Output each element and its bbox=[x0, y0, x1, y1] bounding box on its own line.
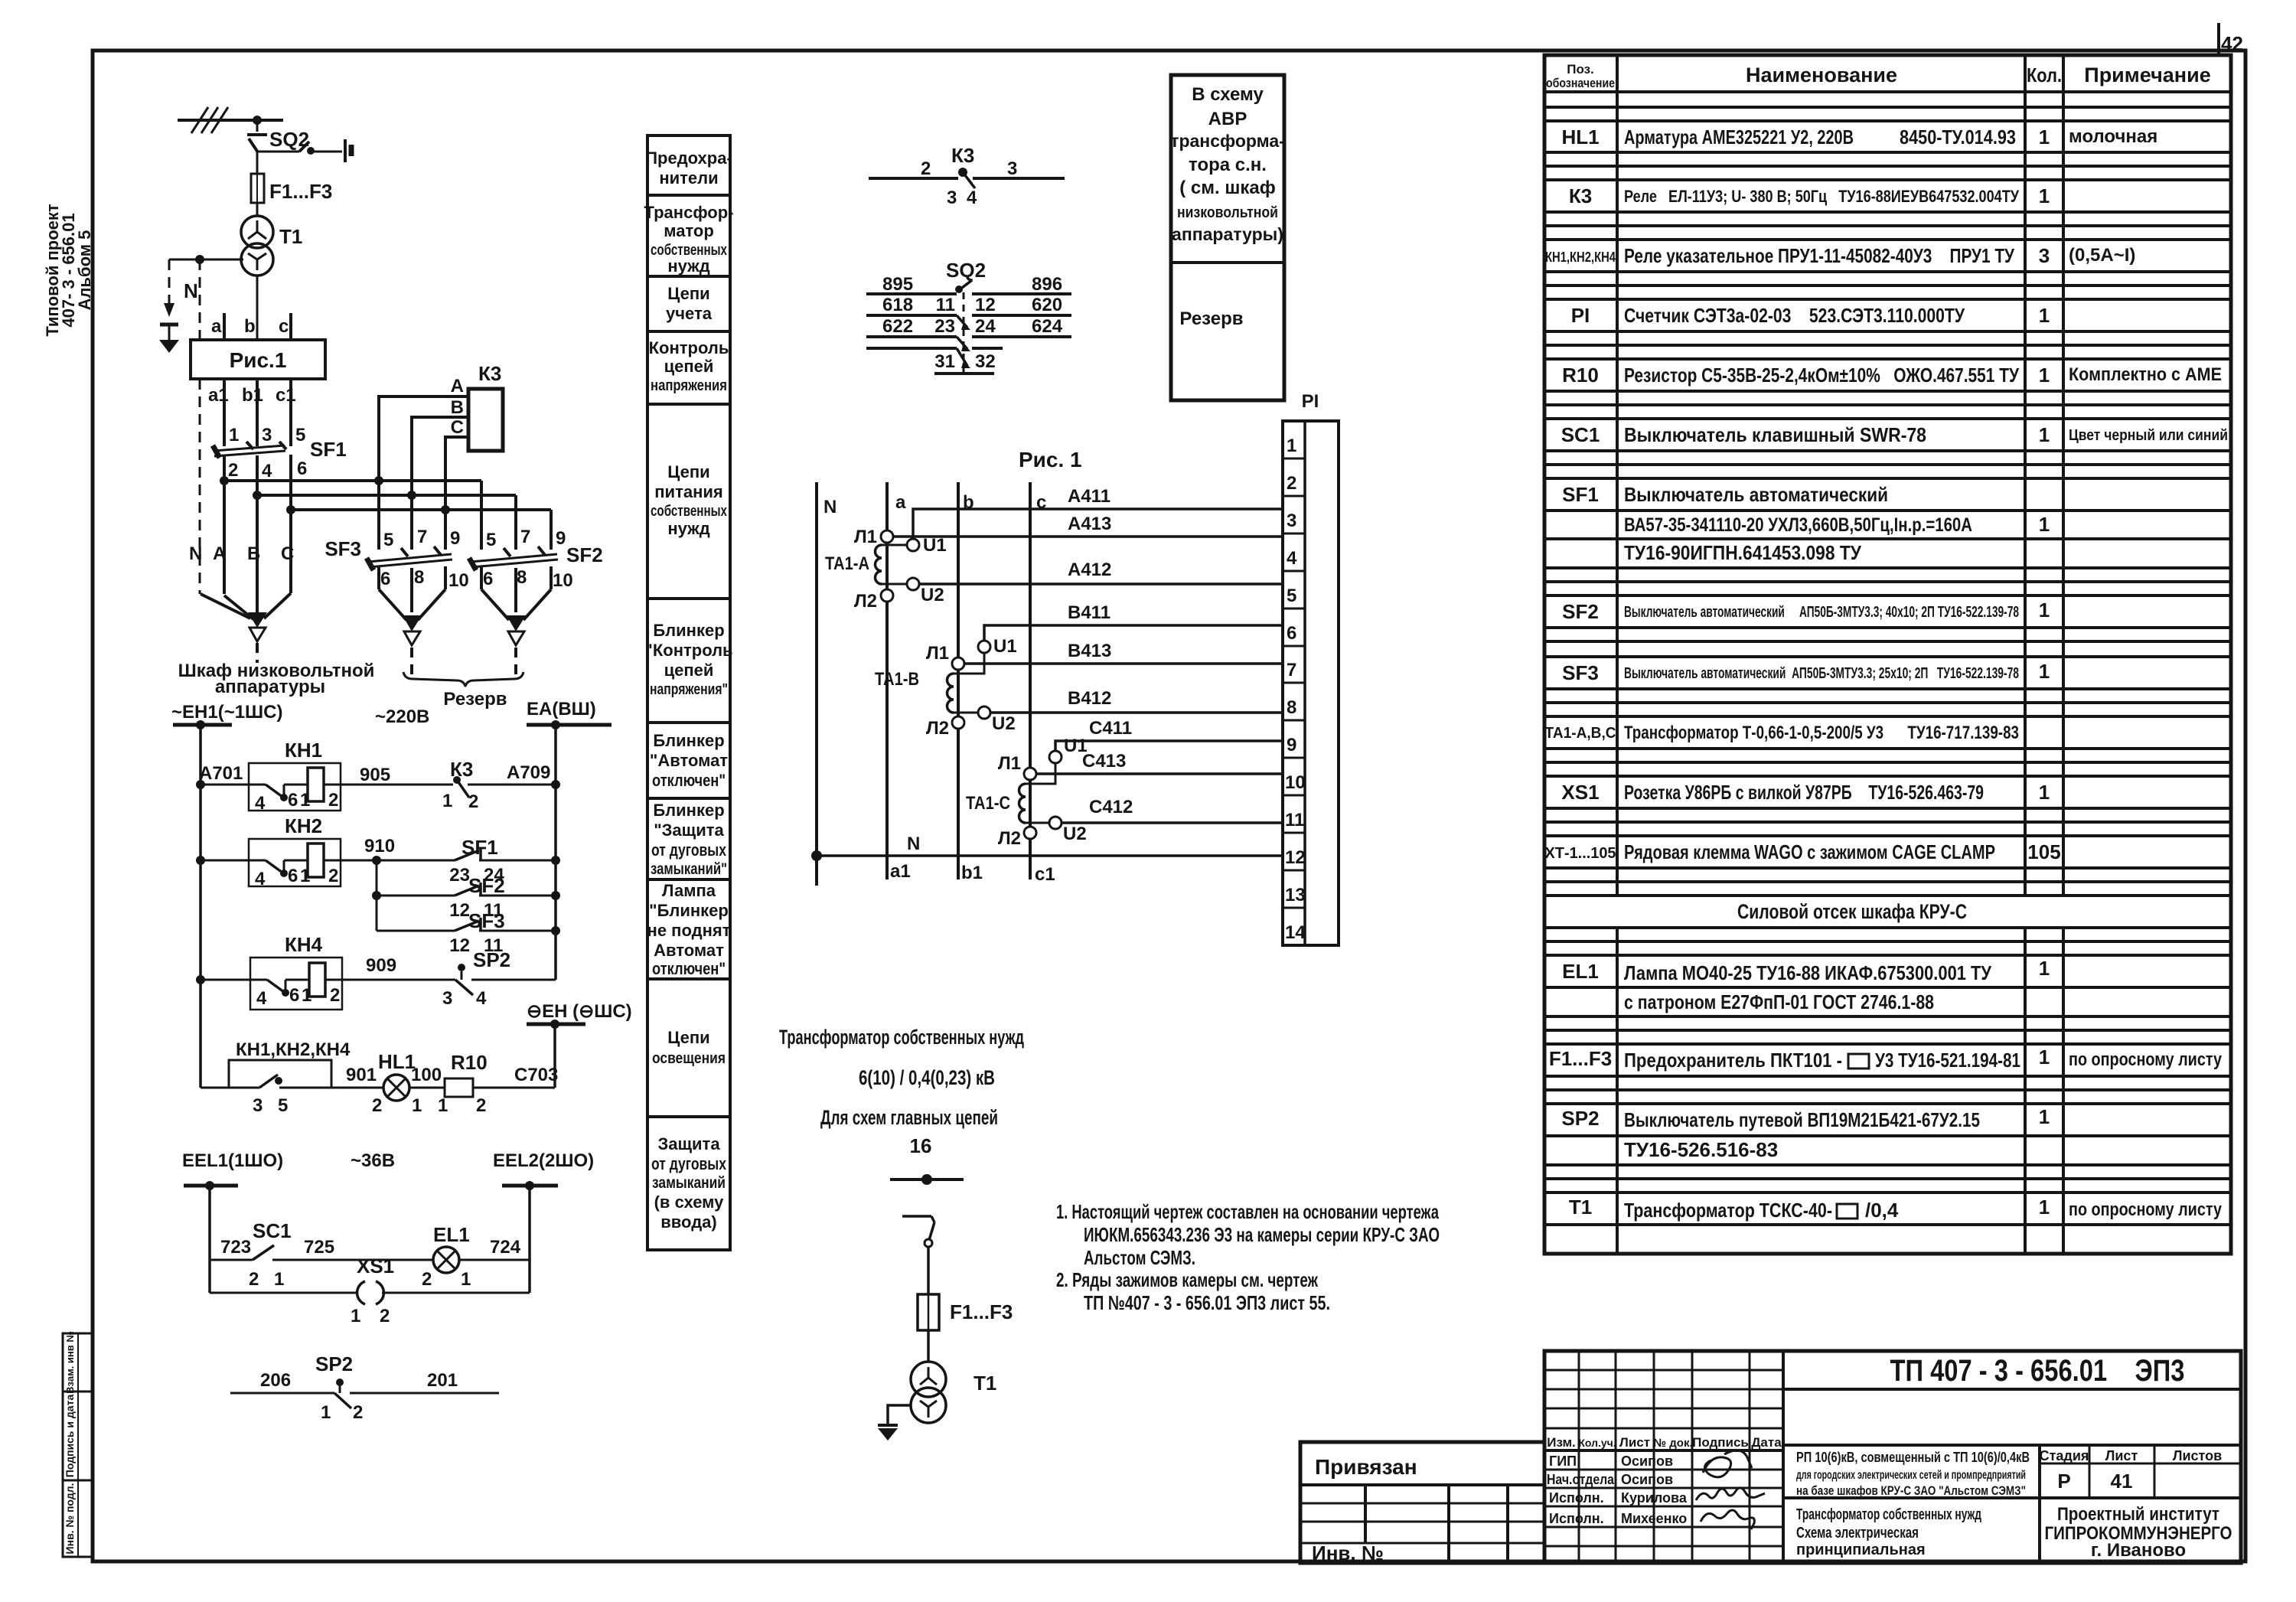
svg-text:3: 3 bbox=[442, 988, 452, 1009]
svg-text:1: 1 bbox=[1287, 436, 1296, 456]
svg-text:B: B bbox=[451, 397, 464, 418]
svg-text:К3: К3 bbox=[450, 758, 473, 781]
wire: left supply vertical bbox=[199, 725, 202, 1088]
svg-text:ТА1-В: ТА1-В bbox=[875, 669, 919, 690]
svg-text:7: 7 bbox=[1287, 660, 1296, 680]
svg-text:Реле ЕЛ-11У3; U- 380 В; 50: Реле ЕЛ-11У3; U- 380 В; 50Гц ТУ16-88ИЕУВ… bbox=[1624, 187, 2019, 206]
svg-text:2: 2 bbox=[476, 1095, 486, 1116]
svg-text:2: 2 bbox=[330, 985, 340, 1006]
sheet number 42 bbox=[2219, 23, 2243, 55]
svg-text:В схему: В схему bbox=[1192, 84, 1264, 105]
svg-text:U2: U2 bbox=[1063, 824, 1087, 844]
ground bus with hatching bbox=[178, 107, 283, 133]
svg-text:42: 42 bbox=[2221, 32, 2243, 55]
svg-text:Стадия: Стадия bbox=[2040, 1448, 2089, 1463]
svg-text:6(10) / 0,4(0,23) кВ: 6(10) / 0,4(0,23) кВ bbox=[859, 1066, 995, 1089]
ground of T1 bbox=[878, 1405, 912, 1440]
project description bbox=[1783, 1445, 2241, 1563]
svg-text:N: N bbox=[907, 834, 920, 854]
svg-text:2. Ряды зажимов камеры см. че: 2. Ряды зажимов камеры см. чертеж bbox=[1056, 1268, 1318, 1291]
svg-text:12: 12 bbox=[449, 900, 470, 921]
svg-text:напряжения": напряжения" bbox=[650, 681, 728, 698]
disconnect switch (main circuit) bbox=[902, 1216, 934, 1294]
node 16 bus bbox=[890, 1174, 964, 1185]
box Цепи учета bbox=[647, 276, 730, 331]
svg-text:Арматура АМЕ325221 У2, 220В: Арматура АМЕ325221 У2, 220В bbox=[1624, 126, 1854, 148]
svg-text:F1...F3: F1...F3 bbox=[1549, 1047, 1612, 1070]
svg-text:С413: С413 bbox=[1082, 751, 1126, 772]
svg-text:12: 12 bbox=[449, 935, 470, 956]
svg-text:2: 2 bbox=[380, 1306, 390, 1326]
svg-text:C: C bbox=[451, 417, 464, 438]
svg-text:Блинкер: Блинкер bbox=[653, 621, 724, 640]
wire 910 branch vertical bbox=[372, 860, 381, 931]
svg-text:К3: К3 bbox=[951, 144, 974, 167]
wire stub b (from T1) bbox=[244, 276, 257, 340]
svg-text:Силовой отсек шкафа КРУ-С: Силовой отсек шкафа КРУ-С bbox=[1737, 900, 1967, 923]
svg-text:Трансформатор Т-0,66-1-0,5-200: Трансформатор Т-0,66-1-0,5-200/5 У3 ТУ16… bbox=[1624, 723, 2019, 743]
table row SC1 bbox=[1561, 423, 2228, 446]
АВР reference box bbox=[1170, 75, 1285, 400]
svg-text:105: 105 bbox=[2027, 840, 2060, 863]
svg-text:Выключатель автоматический: Выключатель автоматический АП50Б-3МТУ3.3… bbox=[1624, 604, 2019, 621]
travel switch SP2 (bottom) bbox=[230, 1352, 499, 1423]
svg-text:4: 4 bbox=[256, 988, 267, 1009]
svg-text:от дуговых: от дуговых bbox=[651, 840, 727, 860]
svg-text:SC1: SC1 bbox=[1561, 423, 1600, 446]
svg-text:2: 2 bbox=[353, 1402, 363, 1423]
svg-text:Трансформатор собственных нужд: Трансформатор собственных нужд bbox=[1796, 1506, 1981, 1523]
svg-text:N: N bbox=[184, 279, 198, 302]
svg-text:по опросному листу: по опросному листу bbox=[2069, 1199, 2223, 1220]
svg-text:Наименование: Наименование bbox=[1746, 64, 1897, 86]
earthing arrow of neutral bbox=[159, 259, 179, 353]
svg-text:31: 31 bbox=[934, 351, 955, 372]
contact SF3 row bbox=[377, 909, 560, 956]
svg-text:10: 10 bbox=[448, 570, 469, 591]
svg-text:3: 3 bbox=[947, 188, 957, 208]
wire a1 below box bbox=[208, 379, 229, 446]
wire phase B down to funnel bbox=[256, 495, 259, 597]
svg-text:2: 2 bbox=[228, 460, 238, 481]
Рис.1 detail: line a bbox=[887, 482, 906, 879]
Рис.1 detail: line b bbox=[958, 482, 974, 879]
svg-text:909: 909 bbox=[366, 955, 396, 976]
box Трансформатор собственных нужд bbox=[644, 195, 734, 276]
svg-text:Исполн.: Исполн. bbox=[1549, 1490, 1604, 1506]
relay КН2 with contact bbox=[196, 814, 395, 889]
svg-text:принципиальная: принципиальная bbox=[1796, 1542, 1926, 1558]
svg-text:Листов: Листов bbox=[2173, 1448, 2222, 1463]
svg-text:7: 7 bbox=[520, 527, 530, 547]
left margin stamp text (rotated) bbox=[43, 204, 94, 337]
table row ТА1-А,В,С bbox=[1545, 723, 2020, 743]
svg-text:SF3: SF3 bbox=[468, 909, 505, 932]
table row HL1 bbox=[1561, 126, 2157, 148]
bus EEL1(1ШО) bbox=[182, 1150, 395, 1293]
svg-text:3: 3 bbox=[1287, 511, 1296, 531]
wire С412 bbox=[1062, 797, 1283, 823]
svg-text:SQ2: SQ2 bbox=[946, 259, 986, 282]
svg-text:учета: учета bbox=[666, 304, 713, 323]
svg-text:9: 9 bbox=[450, 528, 460, 549]
SQ2 linkage dashed bbox=[963, 292, 965, 373]
title block grid bbox=[1544, 1351, 2241, 1563]
svg-text:Инв. №: Инв. № bbox=[1312, 1542, 1384, 1564]
svg-text:7: 7 bbox=[417, 527, 427, 547]
svg-text:Блинкер: Блинкер bbox=[653, 801, 724, 820]
svg-text:901: 901 bbox=[346, 1065, 377, 1085]
neutral wire from T1 bbox=[169, 259, 243, 261]
svg-text:ВА57-35-341110-20 УХЛ3,660В,50: ВА57-35-341110-20 УХЛ3,660В,50Гц,Iн.р.=1… bbox=[1624, 514, 1972, 536]
svg-text:Курилова: Курилова bbox=[1621, 1490, 1688, 1506]
svg-text:"Контроль: "Контроль bbox=[644, 641, 732, 660]
table header text bbox=[1546, 62, 2211, 90]
svg-text:"Защита: "Защита bbox=[654, 821, 724, 840]
category column boxes bbox=[645, 135, 732, 195]
svg-text:SF1: SF1 bbox=[310, 438, 347, 461]
CT ТА1-В bbox=[875, 636, 1017, 739]
svg-text:32: 32 bbox=[975, 351, 996, 372]
wire c1 below box bbox=[276, 379, 296, 446]
busbar phase A bbox=[224, 479, 481, 482]
svg-text:питания: питания bbox=[654, 482, 722, 501]
table row SF3 bbox=[1562, 660, 2050, 684]
svg-text:Выключатель клавишный SWR-78: Выключатель клавишный SWR-78 bbox=[1624, 423, 1926, 446]
svg-text:SF2: SF2 bbox=[566, 543, 603, 566]
svg-text:4: 4 bbox=[967, 188, 977, 208]
svg-text:для городских электрических се: для городских электрических сетей и пром… bbox=[1796, 1469, 2026, 1482]
svg-text:Рис. 1: Рис. 1 bbox=[1019, 448, 1082, 471]
svg-text:Выключатель путевой ВП19М21Б42: Выключатель путевой ВП19М21Б421-67У2.15 bbox=[1624, 1108, 1980, 1131]
svg-text:(в схему: (в схему bbox=[654, 1193, 725, 1212]
svg-text:895: 895 bbox=[882, 274, 913, 295]
funnel arrow of SF3 group bbox=[379, 589, 445, 678]
wire stub a bbox=[211, 313, 224, 340]
svg-text:4: 4 bbox=[1287, 548, 1297, 569]
svg-text:SF3: SF3 bbox=[1562, 661, 1599, 684]
box Блинкер Автомат отключен bbox=[647, 723, 730, 798]
svg-text:на базе шкафов КРУ-С ЗАО "Альс: на базе шкафов КРУ-С ЗАО "Альстом СЭМЗ" bbox=[1796, 1483, 2026, 1498]
svg-text:b: b bbox=[244, 316, 256, 337]
svg-text:Предохра-: Предохра- bbox=[645, 148, 732, 168]
svg-text:N: N bbox=[823, 497, 837, 517]
wire С413 bbox=[1036, 751, 1283, 774]
svg-text:Привязан: Привязан bbox=[1315, 1455, 1417, 1479]
svg-text:1: 1 bbox=[2039, 423, 2050, 446]
svg-text:К3: К3 bbox=[478, 362, 501, 385]
wire А411 bbox=[913, 486, 1283, 539]
svg-text:R10: R10 bbox=[451, 1051, 488, 1074]
svg-text:14: 14 bbox=[1285, 922, 1306, 943]
svg-text:3: 3 bbox=[2039, 244, 2050, 267]
svg-text:1: 1 bbox=[461, 1269, 471, 1290]
relay K3 box bbox=[468, 362, 503, 451]
svg-text:Изм.: Изм. bbox=[1547, 1435, 1576, 1450]
svg-text:SC1: SC1 bbox=[253, 1219, 292, 1242]
svg-text:1: 1 bbox=[2039, 1105, 2050, 1128]
svg-text:XS1: XS1 bbox=[1561, 781, 1599, 804]
svg-text:b1: b1 bbox=[242, 385, 263, 406]
left bottom stamp box Взам. инв № bbox=[63, 1331, 93, 1394]
table row XS1 bbox=[1561, 781, 2050, 804]
svg-text:А412: А412 bbox=[1068, 560, 1111, 580]
svg-text:EEL2(2ШО): EEL2(2ШО) bbox=[493, 1150, 594, 1171]
wire B to K3 bbox=[412, 397, 468, 495]
svg-text:N: N bbox=[189, 543, 202, 564]
svg-text:4: 4 bbox=[476, 988, 487, 1009]
wire phase A down to funnel bbox=[223, 481, 226, 594]
svg-text:Трансформатор ТСКС-40-: Трансформатор ТСКС-40- bbox=[1624, 1199, 1832, 1222]
dashed N below box bbox=[199, 379, 201, 594]
svg-text:Выключатель автоматический: Выключатель автоматический bbox=[1624, 483, 1888, 506]
svg-text:Осипов: Осипов bbox=[1621, 1472, 1673, 1487]
svg-text:нители: нители bbox=[659, 168, 718, 188]
dashed neutral N to Рис.1 bbox=[184, 259, 200, 340]
svg-text:К3: К3 bbox=[1569, 184, 1592, 207]
svg-text:3: 3 bbox=[253, 1095, 263, 1116]
svg-text:1: 1 bbox=[2039, 957, 2050, 980]
svg-text:SP2: SP2 bbox=[473, 948, 510, 971]
brace under Резерв arrows bbox=[375, 672, 523, 727]
box Блинкер Контроль цепей напряжения bbox=[644, 599, 732, 723]
svg-text:1: 1 bbox=[274, 1269, 284, 1290]
table row T1 bbox=[1569, 1196, 2223, 1222]
wire С411 bbox=[1055, 718, 1283, 751]
svg-text:Л1: Л1 bbox=[854, 527, 877, 547]
svg-text:C: C bbox=[281, 543, 294, 564]
svg-text:Л2: Л2 bbox=[854, 591, 877, 612]
contact SP2 in КН4 row bbox=[442, 948, 556, 1009]
svg-text:Л1: Л1 bbox=[926, 643, 949, 664]
lamp EL1 bbox=[422, 1223, 530, 1290]
svg-text:А709: А709 bbox=[507, 762, 550, 783]
svg-text:2: 2 bbox=[1287, 473, 1296, 494]
svg-text:R10: R10 bbox=[1562, 364, 1599, 387]
relay КН4 with contact bbox=[196, 933, 455, 1010]
CT ТА1-А bbox=[825, 527, 947, 612]
busbar phase B bbox=[257, 494, 516, 497]
svg-text:a: a bbox=[211, 316, 222, 337]
svg-text:6: 6 bbox=[1287, 623, 1296, 644]
bus ⊖ЕН (⊖ШС) bbox=[527, 1001, 632, 1088]
svg-text:ТП №407 - 3 - 656.01 ЭП3 лист: ТП №407 - 3 - 656.01 ЭП3 лист 55. bbox=[1084, 1291, 1330, 1314]
svg-text:А413: А413 bbox=[1068, 514, 1111, 534]
CT ТА1-С bbox=[966, 736, 1088, 849]
svg-text:6: 6 bbox=[297, 458, 307, 479]
svg-text:a1: a1 bbox=[890, 861, 911, 882]
svg-text:EEL1(1ШО): EEL1(1ШО) bbox=[182, 1150, 283, 1171]
svg-text:Нач.отдела: Нач.отдела bbox=[1547, 1472, 1615, 1487]
svg-text:ХТ-1...105: ХТ-1...105 bbox=[1545, 845, 1616, 862]
svg-text:5: 5 bbox=[486, 530, 496, 550]
svg-text:от дуговых: от дуговых bbox=[651, 1154, 727, 1173]
svg-text:Осипов: Осипов bbox=[1621, 1454, 1673, 1469]
svg-text:Лист: Лист bbox=[1619, 1435, 1650, 1450]
breaker SF1 bbox=[213, 425, 347, 510]
svg-text:U1: U1 bbox=[923, 535, 947, 556]
Рис.1 reference box bbox=[191, 340, 325, 379]
svg-text:620: 620 bbox=[1032, 295, 1062, 315]
wire А413 bbox=[893, 514, 1283, 537]
svg-text:1: 1 bbox=[2039, 1046, 2050, 1069]
svg-text:A: A bbox=[451, 376, 464, 396]
contact block SQ2 (middle) bbox=[866, 259, 1071, 295]
svg-text:не поднят: не поднят bbox=[647, 921, 731, 940]
svg-text:T1: T1 bbox=[279, 225, 302, 248]
svg-text:6: 6 bbox=[288, 790, 298, 811]
svg-text:4: 4 bbox=[255, 869, 266, 889]
svg-text:КН4: КН4 bbox=[285, 933, 323, 956]
svg-text:SP2: SP2 bbox=[1561, 1107, 1599, 1130]
contact K3 in КН1 row bbox=[442, 758, 560, 812]
svg-text:аппаратуры): аппаратуры) bbox=[1172, 224, 1283, 244]
node: neutral junction bbox=[195, 255, 204, 264]
wire A to K3 bbox=[379, 376, 468, 481]
table row F1...F3 bbox=[1549, 1046, 2223, 1072]
svg-text:622: 622 bbox=[882, 316, 913, 337]
svg-text:a: a bbox=[895, 492, 906, 513]
box Цепи питания собственных нужд bbox=[647, 404, 730, 599]
wire b1 below box bbox=[242, 379, 263, 446]
table row K3 bbox=[1569, 184, 2050, 207]
breaker SF3 bbox=[325, 481, 468, 612]
box Контроль цепей напряжения bbox=[647, 331, 730, 404]
svg-text:1: 1 bbox=[2039, 126, 2050, 148]
svg-text:8450-ТУ.014.93: 8450-ТУ.014.93 bbox=[1900, 126, 2016, 148]
box Блинкер Защита от дуговых замыканий bbox=[647, 798, 730, 879]
svg-text:ТА1-А,В,С: ТА1-А,В,С bbox=[1545, 725, 1616, 742]
svg-text:12: 12 bbox=[1285, 847, 1306, 868]
svg-text:910: 910 bbox=[364, 836, 395, 856]
svg-text:a1: a1 bbox=[208, 385, 229, 406]
svg-text:2: 2 bbox=[328, 790, 338, 811]
svg-text:Л2: Л2 bbox=[926, 718, 949, 739]
svg-text:8: 8 bbox=[414, 567, 424, 588]
svg-text:С703: С703 bbox=[514, 1065, 558, 1085]
svg-text:23: 23 bbox=[934, 316, 955, 337]
svg-text:Взам. инв №: Взам. инв № bbox=[64, 1331, 76, 1394]
svg-text:2: 2 bbox=[372, 1095, 382, 1116]
svg-text:PI: PI bbox=[1571, 304, 1590, 327]
svg-text:Т1: Т1 bbox=[1569, 1196, 1592, 1219]
svg-text:905: 905 bbox=[360, 765, 390, 785]
SQ2 contact 31-32 bbox=[866, 348, 1003, 374]
svg-text:1: 1 bbox=[321, 1402, 331, 1423]
svg-text:Кол.: Кол. bbox=[2027, 64, 2062, 86]
wire В411 bbox=[984, 602, 1283, 641]
svg-text:~ЕН1(~1ШС): ~ЕН1(~1ШС) bbox=[171, 702, 283, 723]
svg-text:тора с.н.: тора с.н. bbox=[1189, 155, 1267, 175]
svg-text:1: 1 bbox=[2039, 304, 2050, 327]
wire fuse to T1 bbox=[927, 1330, 930, 1362]
Стадия Лист Листов bbox=[2040, 1445, 2241, 1498]
svg-text:~36В: ~36В bbox=[351, 1150, 395, 1171]
svg-text:Исполн.: Исполн. bbox=[1549, 1511, 1604, 1526]
Рис.1 detail: line c bbox=[1030, 482, 1046, 879]
svg-text:напряжения: напряжения bbox=[651, 377, 727, 394]
svg-text:Примечание: Примечание bbox=[2084, 64, 2210, 86]
svg-text:Цвет черный или синий: Цвет черный или синий bbox=[2069, 427, 2228, 444]
svg-text:А701: А701 bbox=[199, 763, 243, 784]
svg-text:13: 13 bbox=[1285, 885, 1306, 905]
svg-text:A: A bbox=[213, 543, 226, 564]
Рис. 1 caption bbox=[1019, 448, 1082, 471]
svg-text:3: 3 bbox=[262, 425, 272, 445]
contact SF1 in КН2 row bbox=[377, 836, 560, 886]
busbar phase C bbox=[291, 508, 551, 511]
Рис.1 detail: line N bbox=[817, 482, 837, 886]
svg-text:ИЮКМ.656343.236 Э3 на камеры с: ИЮКМ.656343.236 Э3 на камеры серии КРУ-С… bbox=[1084, 1223, 1440, 1246]
svg-text:2: 2 bbox=[422, 1269, 432, 1290]
svg-text:1: 1 bbox=[2039, 599, 2050, 622]
title ТП 407-3-656.01 ЭП3 bbox=[1783, 1354, 2241, 1445]
svg-text:Трансформатор собственных нужд: Трансформатор собственных нужд bbox=[779, 1026, 1024, 1049]
svg-text:( см. шкаф: ( см. шкаф bbox=[1179, 178, 1275, 198]
svg-text:Цепи: Цепи bbox=[667, 1028, 709, 1047]
svg-text:Р: Р bbox=[2057, 1470, 2070, 1493]
svg-text:Реле указательное ПРУ1-11-4508: Реле указательное ПРУ1-11-45082-40У3 ПРУ… bbox=[1624, 244, 2015, 267]
design institute bbox=[2045, 1504, 2232, 1561]
svg-text:724: 724 bbox=[490, 1237, 521, 1258]
transformer T1 (main circuit) bbox=[911, 1362, 996, 1423]
svg-text:5: 5 bbox=[295, 425, 305, 445]
svg-text:3: 3 bbox=[1007, 158, 1017, 179]
bus ~EH1(~1ШС) bbox=[171, 702, 283, 729]
left bottom stamp box Подпись и дата bbox=[63, 1392, 93, 1480]
svg-text:Альстом СЭМЗ.: Альстом СЭМЗ. bbox=[1084, 1246, 1195, 1269]
parts table grid bbox=[1544, 55, 2231, 1254]
svg-text:23: 23 bbox=[449, 865, 470, 886]
left bottom stamp box Инв. № подл. bbox=[63, 1480, 93, 1557]
box Лампа Блинкер не поднят Автомат отключен bbox=[647, 879, 731, 979]
contact SF2 row bbox=[377, 874, 560, 921]
table row R10 bbox=[1562, 364, 2222, 387]
svg-text:Защита: Защита bbox=[657, 1134, 720, 1153]
svg-text:U2: U2 bbox=[992, 713, 1016, 734]
svg-text:5: 5 bbox=[278, 1095, 288, 1116]
svg-text:КН2: КН2 bbox=[285, 814, 322, 837]
svg-text:4: 4 bbox=[262, 461, 272, 481]
caption Трансформатор собственных нужд bbox=[779, 1026, 1024, 1157]
svg-text:КН1,КН2,КН4: КН1,КН2,КН4 bbox=[236, 1039, 351, 1060]
svg-text:Розетка У86РБ с вилкой У87РБ: Розетка У86РБ с вилкой У87РБ ТУ16-526.46… bbox=[1624, 781, 1984, 804]
svg-text:1: 1 bbox=[351, 1306, 360, 1326]
svg-text:Трансфор-: Трансфор- bbox=[644, 203, 734, 222]
svg-text:1: 1 bbox=[2039, 660, 2050, 683]
svg-text:ТП 407 - 3 - 656.01 ЭП3: ТП 407 - 3 - 656.01 ЭП3 bbox=[1890, 1354, 2185, 1388]
svg-text:6: 6 bbox=[380, 569, 390, 589]
svg-text:11: 11 bbox=[1285, 810, 1304, 830]
svg-text:Подпись: Подпись bbox=[1692, 1435, 1749, 1450]
wire phase C down to funnel bbox=[289, 510, 292, 593]
signature rows bbox=[1547, 1454, 1688, 1526]
svg-text:АВР: АВР bbox=[1208, 109, 1247, 129]
svg-text:1: 1 bbox=[2039, 781, 2050, 804]
svg-text:Кол.уч.: Кол.уч. bbox=[1578, 1437, 1616, 1449]
breaker SF2 bbox=[469, 481, 603, 612]
fuse F1...F3 (main circuit) bbox=[918, 1294, 1013, 1330]
relay КН1 with contact bbox=[196, 739, 453, 814]
svg-text:725: 725 bbox=[304, 1237, 334, 1258]
svg-text:Л1: Л1 bbox=[998, 753, 1021, 774]
svg-text:В411: В411 bbox=[1068, 602, 1110, 623]
svg-text:аппаратуры: аппаратуры bbox=[215, 677, 325, 697]
svg-text:4: 4 bbox=[255, 793, 266, 814]
wire В413 bbox=[964, 641, 1283, 664]
svg-text:~220В: ~220В bbox=[375, 706, 429, 727]
Привязан box bbox=[1300, 1442, 1544, 1564]
